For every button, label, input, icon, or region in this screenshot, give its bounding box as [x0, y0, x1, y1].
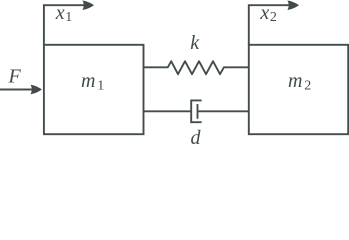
svg-text:k: k	[190, 32, 200, 54]
svg-text:d: d	[191, 127, 202, 144]
svg-text:m1: m1	[81, 70, 104, 94]
svg-text:m2: m2	[288, 70, 311, 94]
svg-text:F: F	[8, 65, 22, 87]
